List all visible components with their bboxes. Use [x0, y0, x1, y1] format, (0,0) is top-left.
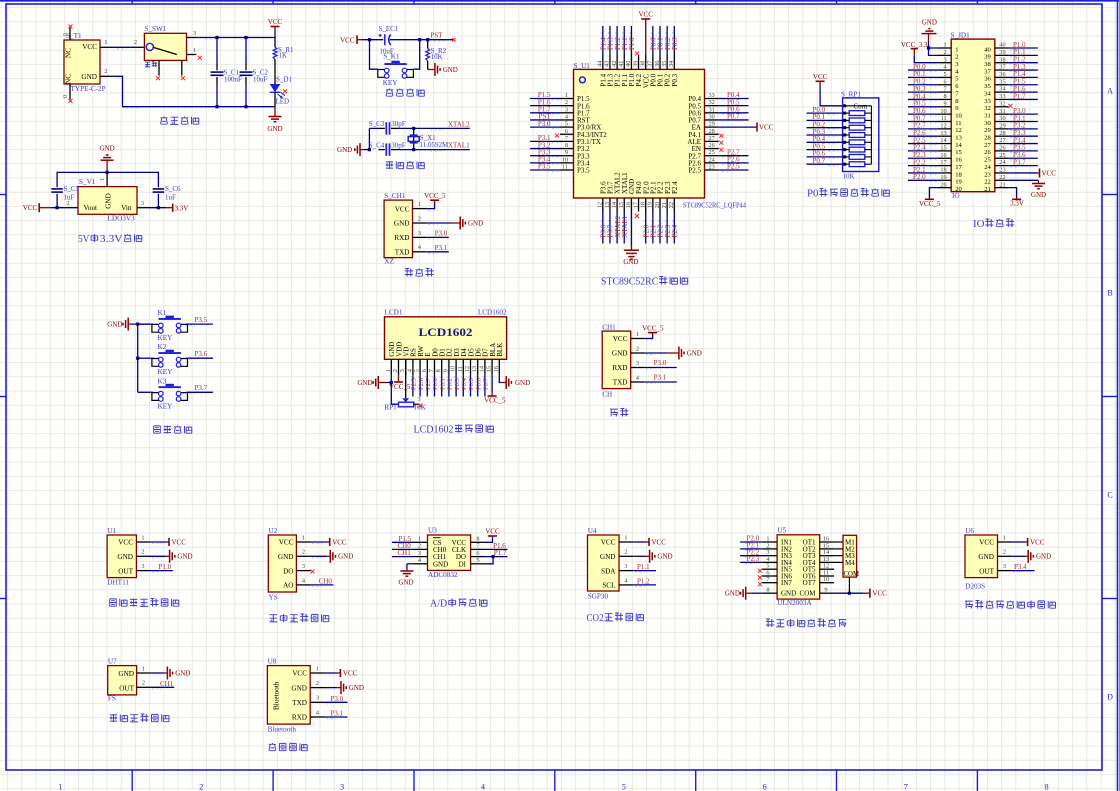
svg-text:3: 3 [316, 695, 319, 702]
caption 按键电路 [154, 426, 161, 433]
svg-text:13: 13 [471, 366, 478, 372]
wire U1 pin1 VCC [150, 541, 166, 543]
svg-text:S_C4: S_C4 [369, 141, 385, 149]
wire U1 left P3.5 [530, 169, 560, 171]
svg-text:NC: NC [65, 74, 73, 84]
wire U1 top P0.3 [673, 26, 675, 55]
LCD pin15 BLA VCC_5 port [491, 375, 493, 392]
svg-text:9: 9 [824, 587, 827, 594]
svg-text:1: 1 [418, 536, 421, 543]
svg-text:3.3V: 3.3V [1010, 200, 1024, 208]
svg-text:5: 5 [414, 369, 421, 372]
svg-text:18: 18 [940, 167, 946, 174]
crystal X1 11.0592M [413, 128, 415, 149]
svg-text:28: 28 [999, 130, 1005, 137]
svg-text:P1.2: P1.2 [637, 577, 650, 585]
caption 复位电路 [386, 89, 393, 97]
svg-text:U8: U8 [268, 658, 277, 666]
svg-text:P2.5: P2.5 [688, 167, 701, 175]
svg-text:GND: GND [657, 553, 672, 561]
U1 left pin 5 P3.0/RX [560, 126, 574, 128]
CH1 pin 2 stub [413, 222, 427, 224]
svg-text:VCC: VCC [343, 669, 358, 677]
U5 right pin 12 stub [820, 568, 834, 570]
U4 pin 1 stub [619, 541, 633, 543]
svg-text:VCC: VCC [23, 204, 38, 212]
svg-text:5: 5 [565, 121, 568, 128]
frame row tick [1102, 598, 1118, 600]
U1 bottom pin 13 P3.7 [609, 198, 611, 212]
wire JD1 pin21 to 3.3V [1009, 188, 1017, 198]
svg-text:S_C5: S_C5 [64, 185, 80, 193]
junction R2 [426, 38, 429, 41]
wire U1 bottom P3.6 [602, 212, 604, 244]
wire K2 left [138, 357, 154, 359]
no-connect X U1 pin 6 [555, 134, 559, 138]
wire C5 bottom [56, 194, 58, 208]
U7 pin 1 stub [137, 672, 151, 674]
U6 pin 2 stub [998, 555, 1012, 557]
svg-text:10: 10 [450, 366, 457, 372]
wire JD1 right P3.3 [1009, 135, 1038, 137]
caption 蓝牙模块 [269, 743, 276, 751]
U1 top pin 34 P0.3 [673, 55, 675, 69]
svg-text:1: 1 [1003, 534, 1006, 541]
svg-text:VCC: VCC [172, 538, 187, 546]
svg-text:15: 15 [955, 149, 962, 156]
wire VCC to V1 Vout [43, 207, 52, 209]
JD1 left pin 4 [937, 69, 951, 71]
CH1 serial pin 1 stub [631, 338, 645, 340]
svg-text:GND: GND [105, 193, 113, 209]
svg-text:DI: DI [459, 560, 467, 568]
svg-text:VCC: VCC [638, 11, 653, 19]
svg-text:2: 2 [418, 543, 421, 550]
JD1 right pin 21 [995, 187, 1009, 189]
wire LCD pin1 GND [386, 375, 392, 383]
resistor R2 10K [427, 40, 429, 49]
svg-text:8: 8 [565, 142, 568, 149]
capacitor C5 1uF [51, 188, 63, 190]
wire U4 pin1 VCC [633, 541, 646, 543]
SW1 pin 2 stub [133, 46, 144, 48]
svg-text:15: 15 [940, 145, 946, 152]
U3 left pin 4 stub [413, 563, 427, 565]
U8 pin 2 stub [310, 687, 324, 689]
svg-text:P0.0: P0.0 [432, 377, 439, 390]
JD1 right pin 29 [995, 128, 1009, 130]
U1 bottom pin 16 GND [630, 198, 632, 212]
wire C2 bottom stem [245, 77, 247, 84]
svg-text:P2.0: P2.0 [913, 173, 926, 181]
svg-text:GND: GND [357, 379, 372, 387]
U1 right pin 29 EA [705, 126, 719, 128]
power ground (serial) [676, 352, 679, 354]
svg-text:VCC: VCC [601, 539, 616, 547]
JD1 right pin 30 [995, 121, 1009, 123]
svg-text:U6: U6 [965, 527, 974, 535]
wire LCD D7 [484, 375, 486, 397]
wire U8 pin3 P3.0 [325, 701, 348, 703]
wire U3 CLK P1.6 [484, 548, 507, 550]
sensor U6 D203S [965, 535, 998, 578]
wire U5 COM pin9 to VCC [834, 592, 863, 594]
wire reset button right leg [413, 40, 420, 69]
svg-text:24: 24 [999, 159, 1006, 166]
svg-text:3: 3 [141, 200, 144, 207]
svg-text:GND: GND [81, 73, 97, 81]
wire RP1 P0.1 [807, 119, 843, 121]
frame column tick [554, 0, 556, 4]
power port VCC (LDO input) [39, 207, 43, 209]
svg-text:VCC_5: VCC_5 [484, 397, 506, 405]
svg-text:13: 13 [604, 202, 611, 208]
svg-text:22: 22 [668, 202, 675, 208]
wire T1 pin1 to SW1 pin2 [114, 46, 133, 48]
LCD pin 7 D0 [434, 359, 436, 375]
svg-text:22: 22 [999, 174, 1005, 181]
svg-text:38: 38 [984, 61, 991, 68]
svg-text:1: 1 [955, 46, 958, 53]
power port VCC (U1 top) [641, 18, 650, 20]
svg-text:CH1: CH1 [160, 680, 174, 688]
svg-text:10: 10 [562, 156, 568, 163]
U3 left pin 3 stub [413, 556, 427, 558]
wire JD1 left P2.7 [908, 128, 937, 130]
svg-text:GND: GND [398, 579, 413, 587]
no-connect X near D1 [283, 89, 287, 93]
svg-text:2: 2 [392, 369, 399, 372]
svg-text:29: 29 [709, 121, 715, 128]
svg-text:K1: K1 [158, 309, 167, 317]
svg-text:2: 2 [624, 549, 627, 556]
wire LCD D0 [434, 375, 436, 397]
U1 left pin 2 P1.6 [560, 105, 574, 107]
svg-text:20: 20 [654, 202, 661, 208]
svg-text:13: 13 [955, 135, 962, 142]
svg-text:19: 19 [955, 179, 962, 186]
power port VCC (U8) [338, 672, 341, 674]
JD1 right pin 36 [995, 76, 1009, 78]
wire U5 OT2 to motor 2 [834, 548, 843, 550]
svg-text:VCC: VCC [652, 538, 667, 546]
svg-text:35: 35 [661, 61, 668, 67]
svg-text:34: 34 [999, 86, 1006, 93]
power ground (JD1 pin22) [1038, 180, 1040, 183]
U8 pin 3 stub [310, 701, 324, 703]
svg-text:7: 7 [428, 369, 435, 372]
no-connect X pot right [418, 404, 422, 408]
svg-text:21: 21 [999, 181, 1005, 188]
junction reset left [368, 38, 371, 41]
svg-text:LCD1602: LCD1602 [414, 424, 454, 436]
svg-text:10: 10 [940, 108, 946, 115]
svg-text:P3.7: P3.7 [1013, 158, 1026, 166]
U1 right pin 33 P0.4 [705, 98, 719, 100]
JD1 right pin 37 [995, 69, 1009, 71]
U1 right pin 25 P2.7 [705, 155, 719, 157]
V1 pin 3 wire to 3.3V [137, 207, 148, 209]
SW1 pin 1 stub [187, 54, 197, 56]
svg-text:S_JD1: S_JD1 [951, 31, 971, 39]
wire U3 CH1 [392, 556, 413, 558]
svg-text:GND: GND [433, 560, 448, 568]
wire C1 top stem [216, 38, 218, 64]
U5 left pin 3 stub [762, 555, 777, 557]
JD1 left pin 1 [937, 47, 951, 49]
svg-text:IO: IO [952, 192, 960, 200]
wire U1 GND pin [630, 212, 632, 246]
JD1 right pin 27 [995, 143, 1009, 145]
power ground (U3) [406, 570, 408, 572]
svg-text:VCC_3.3: VCC_3.3 [901, 41, 928, 49]
svg-text:37: 37 [647, 61, 654, 67]
wire C6 bottom [157, 194, 159, 208]
frame column tick [131, 0, 133, 4]
svg-text:1: 1 [58, 783, 62, 791]
svg-text:1: 1 [636, 331, 639, 338]
U1 top pin 36 P0.1 [659, 55, 661, 69]
svg-text:18: 18 [640, 202, 647, 208]
U7 pin 2 stub [137, 686, 151, 688]
power port VCC (U5 COM) [863, 592, 870, 594]
U3 right pin 7 stub [471, 548, 485, 550]
svg-text:12: 12 [597, 202, 604, 208]
wire JD1 right P1.5 [1009, 84, 1038, 86]
JD1 right pin 34 [995, 91, 1009, 93]
svg-text:S_C3: S_C3 [369, 120, 385, 128]
svg-text:7: 7 [944, 86, 947, 93]
U3 left pin 1 stub [413, 541, 427, 543]
svg-text:VCC: VCC [292, 670, 307, 678]
svg-text:VCC: VCC [279, 539, 294, 547]
wire U8 pin2 GND [325, 687, 338, 689]
svg-text:AO: AO [283, 582, 293, 590]
wire U1 left P3.0 [530, 126, 560, 128]
svg-text:20: 20 [940, 181, 946, 188]
svg-text:KEY: KEY [158, 402, 174, 410]
svg-text:7: 7 [565, 135, 568, 142]
svg-text:P3.1: P3.1 [654, 374, 667, 382]
wire U7 pin2 CH1 [151, 686, 174, 688]
svg-text:29: 29 [984, 127, 991, 134]
svg-text:10K: 10K [843, 173, 855, 181]
svg-text:31: 31 [984, 112, 991, 119]
svg-text:P0: P0 [807, 188, 818, 200]
wire U1 right P2.7 [719, 155, 749, 157]
svg-text:GND: GND [623, 258, 638, 266]
switch SW1 [144, 33, 186, 60]
svg-text:VCC_5: VCC_5 [389, 383, 411, 391]
no-connect X SW1 bottom A [156, 76, 160, 80]
svg-text:STC89C52RC: STC89C52RC [601, 276, 658, 288]
JD1 right pin 35 [995, 84, 1009, 86]
svg-text:VCC: VCC [268, 18, 283, 26]
U1 right pin 28 P4.1 [705, 133, 719, 135]
power port 3.3V [166, 207, 173, 209]
svg-text:19: 19 [647, 202, 654, 208]
wire LCD RW [419, 375, 421, 397]
svg-text:43: 43 [604, 61, 611, 67]
LCD pin 13 D6 [477, 359, 479, 375]
svg-text:KEY: KEY [158, 334, 174, 342]
U5 left pin 8 stub [762, 592, 777, 594]
wire GND bottom rail [114, 76, 275, 106]
U5 left pin 6 stub [762, 575, 777, 577]
driver U5 ULN2003A [777, 535, 820, 599]
JD1 left pin 6 [937, 84, 951, 86]
U6 pin 1 stub [998, 541, 1012, 543]
wire U1 bottom XTAL2 [616, 212, 618, 244]
no-connect X U5 IN6 [758, 576, 762, 580]
U2 pin 2 stub [296, 555, 310, 557]
svg-text:P3.7: P3.7 [195, 384, 208, 392]
svg-text:2: 2 [636, 345, 639, 352]
potentiometer RP1 10K (LCD contrast) [402, 398, 409, 402]
U5 right pin 14 stub [820, 555, 834, 557]
svg-text:GND: GND [349, 684, 364, 692]
svg-text:GND: GND [725, 590, 740, 598]
svg-text:P0.6: P0.6 [475, 377, 482, 390]
svg-text:1K: 1K [279, 52, 288, 60]
svg-text:35: 35 [984, 83, 991, 90]
svg-text:30: 30 [709, 113, 715, 120]
svg-text:2: 2 [565, 99, 568, 106]
junction C6 [157, 206, 160, 209]
wire C1 bottom stem [216, 77, 218, 84]
svg-text:2: 2 [66, 200, 69, 207]
svg-text:GND: GND [107, 321, 122, 329]
junction C5 [56, 206, 59, 209]
power port VCC (JD1 pin23) [1038, 172, 1040, 174]
wire motor COM down [848, 577, 850, 593]
svg-text:S_D1: S_D1 [276, 75, 292, 83]
svg-text:P3.0: P3.0 [538, 120, 551, 128]
wire C4 to XTAL1 [391, 149, 399, 151]
wire U1 bottom P2.4 [673, 212, 675, 244]
wire RP1 P0.7 [807, 163, 843, 165]
U1 top pin 38 VCC [645, 55, 647, 69]
wire JD1 pin3 VCC_3.3 [914, 55, 937, 63]
junction bottom rail C2 [244, 105, 247, 108]
wire U3 CS P1.5 [392, 541, 413, 543]
svg-text:P3.0: P3.0 [654, 359, 667, 367]
U3 left pin 2 stub [413, 548, 427, 550]
wire crystal left rail [368, 128, 370, 149]
wire K3 left [138, 391, 154, 393]
LED D1 [270, 84, 281, 92]
wire U1 bottom P2.0 [645, 212, 647, 244]
svg-text:P3.4: P3.4 [1014, 563, 1027, 571]
U1 top pin 43 P1.3 [609, 55, 611, 69]
svg-text:K2: K2 [158, 343, 167, 351]
wire JD1 right P3.0 [1009, 113, 1038, 115]
JD1 left pin 5 [937, 76, 951, 78]
svg-text:P3.0: P3.0 [331, 695, 344, 703]
svg-text:P2.3: P2.3 [747, 555, 760, 563]
svg-text:1: 1 [193, 47, 196, 54]
power port VCC_5 (JD1) [928, 198, 930, 200]
wire C3 left [369, 127, 378, 129]
U5 left pin 7 stub [762, 582, 777, 584]
no-connect X U1 pin 39 [635, 51, 639, 55]
svg-text:RXD: RXD [292, 714, 307, 722]
JD1 left pin 9 [937, 106, 951, 108]
svg-text:S_EC1: S_EC1 [379, 25, 399, 33]
svg-text:TXD: TXD [395, 249, 410, 257]
capacitor C6 1uF [153, 188, 165, 190]
CH1 pin 3 stub [413, 236, 427, 238]
svg-text:11: 11 [955, 120, 961, 127]
svg-text:TXD: TXD [292, 699, 307, 707]
wire RP1 P0.2 [807, 127, 843, 129]
svg-text:IN7: IN7 [781, 579, 792, 587]
svg-text:GND: GND [177, 553, 192, 561]
sensor U4 SGP30 [588, 535, 620, 591]
resistor R1 1K [273, 47, 277, 59]
svg-text:2: 2 [955, 54, 958, 61]
svg-text:Vout: Vout [84, 204, 97, 212]
sensor U1 DHT11 [107, 535, 136, 578]
U1 left pin 10 P3.4 [560, 162, 574, 164]
wire LCD RS [412, 375, 414, 397]
power port VCC (U1 EA) [756, 123, 758, 132]
wire U1 right P0.5 [719, 105, 749, 107]
svg-text:U5: U5 [777, 527, 786, 535]
U2 pin 4 stub [296, 584, 310, 586]
svg-text:2: 2 [418, 215, 421, 222]
svg-text:3: 3 [193, 30, 196, 37]
frame column tick [695, 0, 697, 4]
V1 pin 1 GND stub [106, 172, 108, 186]
svg-text:8: 8 [435, 369, 442, 372]
svg-text:M4: M4 [845, 559, 855, 567]
svg-text:GND: GND [468, 219, 483, 227]
wire U3 DO/DI P1.7 [484, 557, 493, 564]
svg-text:6: 6 [944, 78, 947, 85]
svg-text:P1.7: P1.7 [494, 549, 507, 557]
wire RP1 P0.3 [807, 134, 843, 136]
svg-text:25: 25 [999, 152, 1005, 159]
svg-text:27: 27 [984, 142, 991, 149]
wire LCD D1 [441, 375, 443, 397]
svg-text:12: 12 [464, 366, 471, 372]
svg-text:1: 1 [99, 178, 106, 181]
power ground (LCD right) [503, 382, 506, 384]
svg-text:2: 2 [134, 39, 137, 46]
wire D1 to GND [274, 92, 276, 106]
power ground (U7) [164, 672, 167, 674]
JD1 left pin 20 [937, 187, 951, 189]
U1 right pin 32 P0.5 [705, 105, 719, 107]
wire U5 OT1 to motor 1 [834, 541, 843, 543]
JD1 right pin 32 [995, 106, 1009, 108]
svg-text:6: 6 [421, 369, 428, 372]
no-connect X U5 IN5 [758, 569, 762, 573]
wire U1 left P1.7 [530, 112, 560, 114]
wire U1 pin3 P1.0 [150, 570, 173, 572]
svg-text:16: 16 [940, 152, 946, 159]
svg-text:3: 3 [636, 360, 639, 367]
svg-text:30pF: 30pF [391, 141, 406, 149]
JD1 right pin 38 [995, 62, 1009, 64]
JD1 left pin 8 [937, 98, 951, 100]
JD1 left pin 13 [937, 135, 951, 137]
svg-text:1: 1 [302, 534, 305, 541]
svg-text:VCC_5: VCC_5 [642, 324, 664, 332]
wire LCD E [426, 375, 428, 397]
U3 right pin 5 stub [471, 563, 485, 565]
